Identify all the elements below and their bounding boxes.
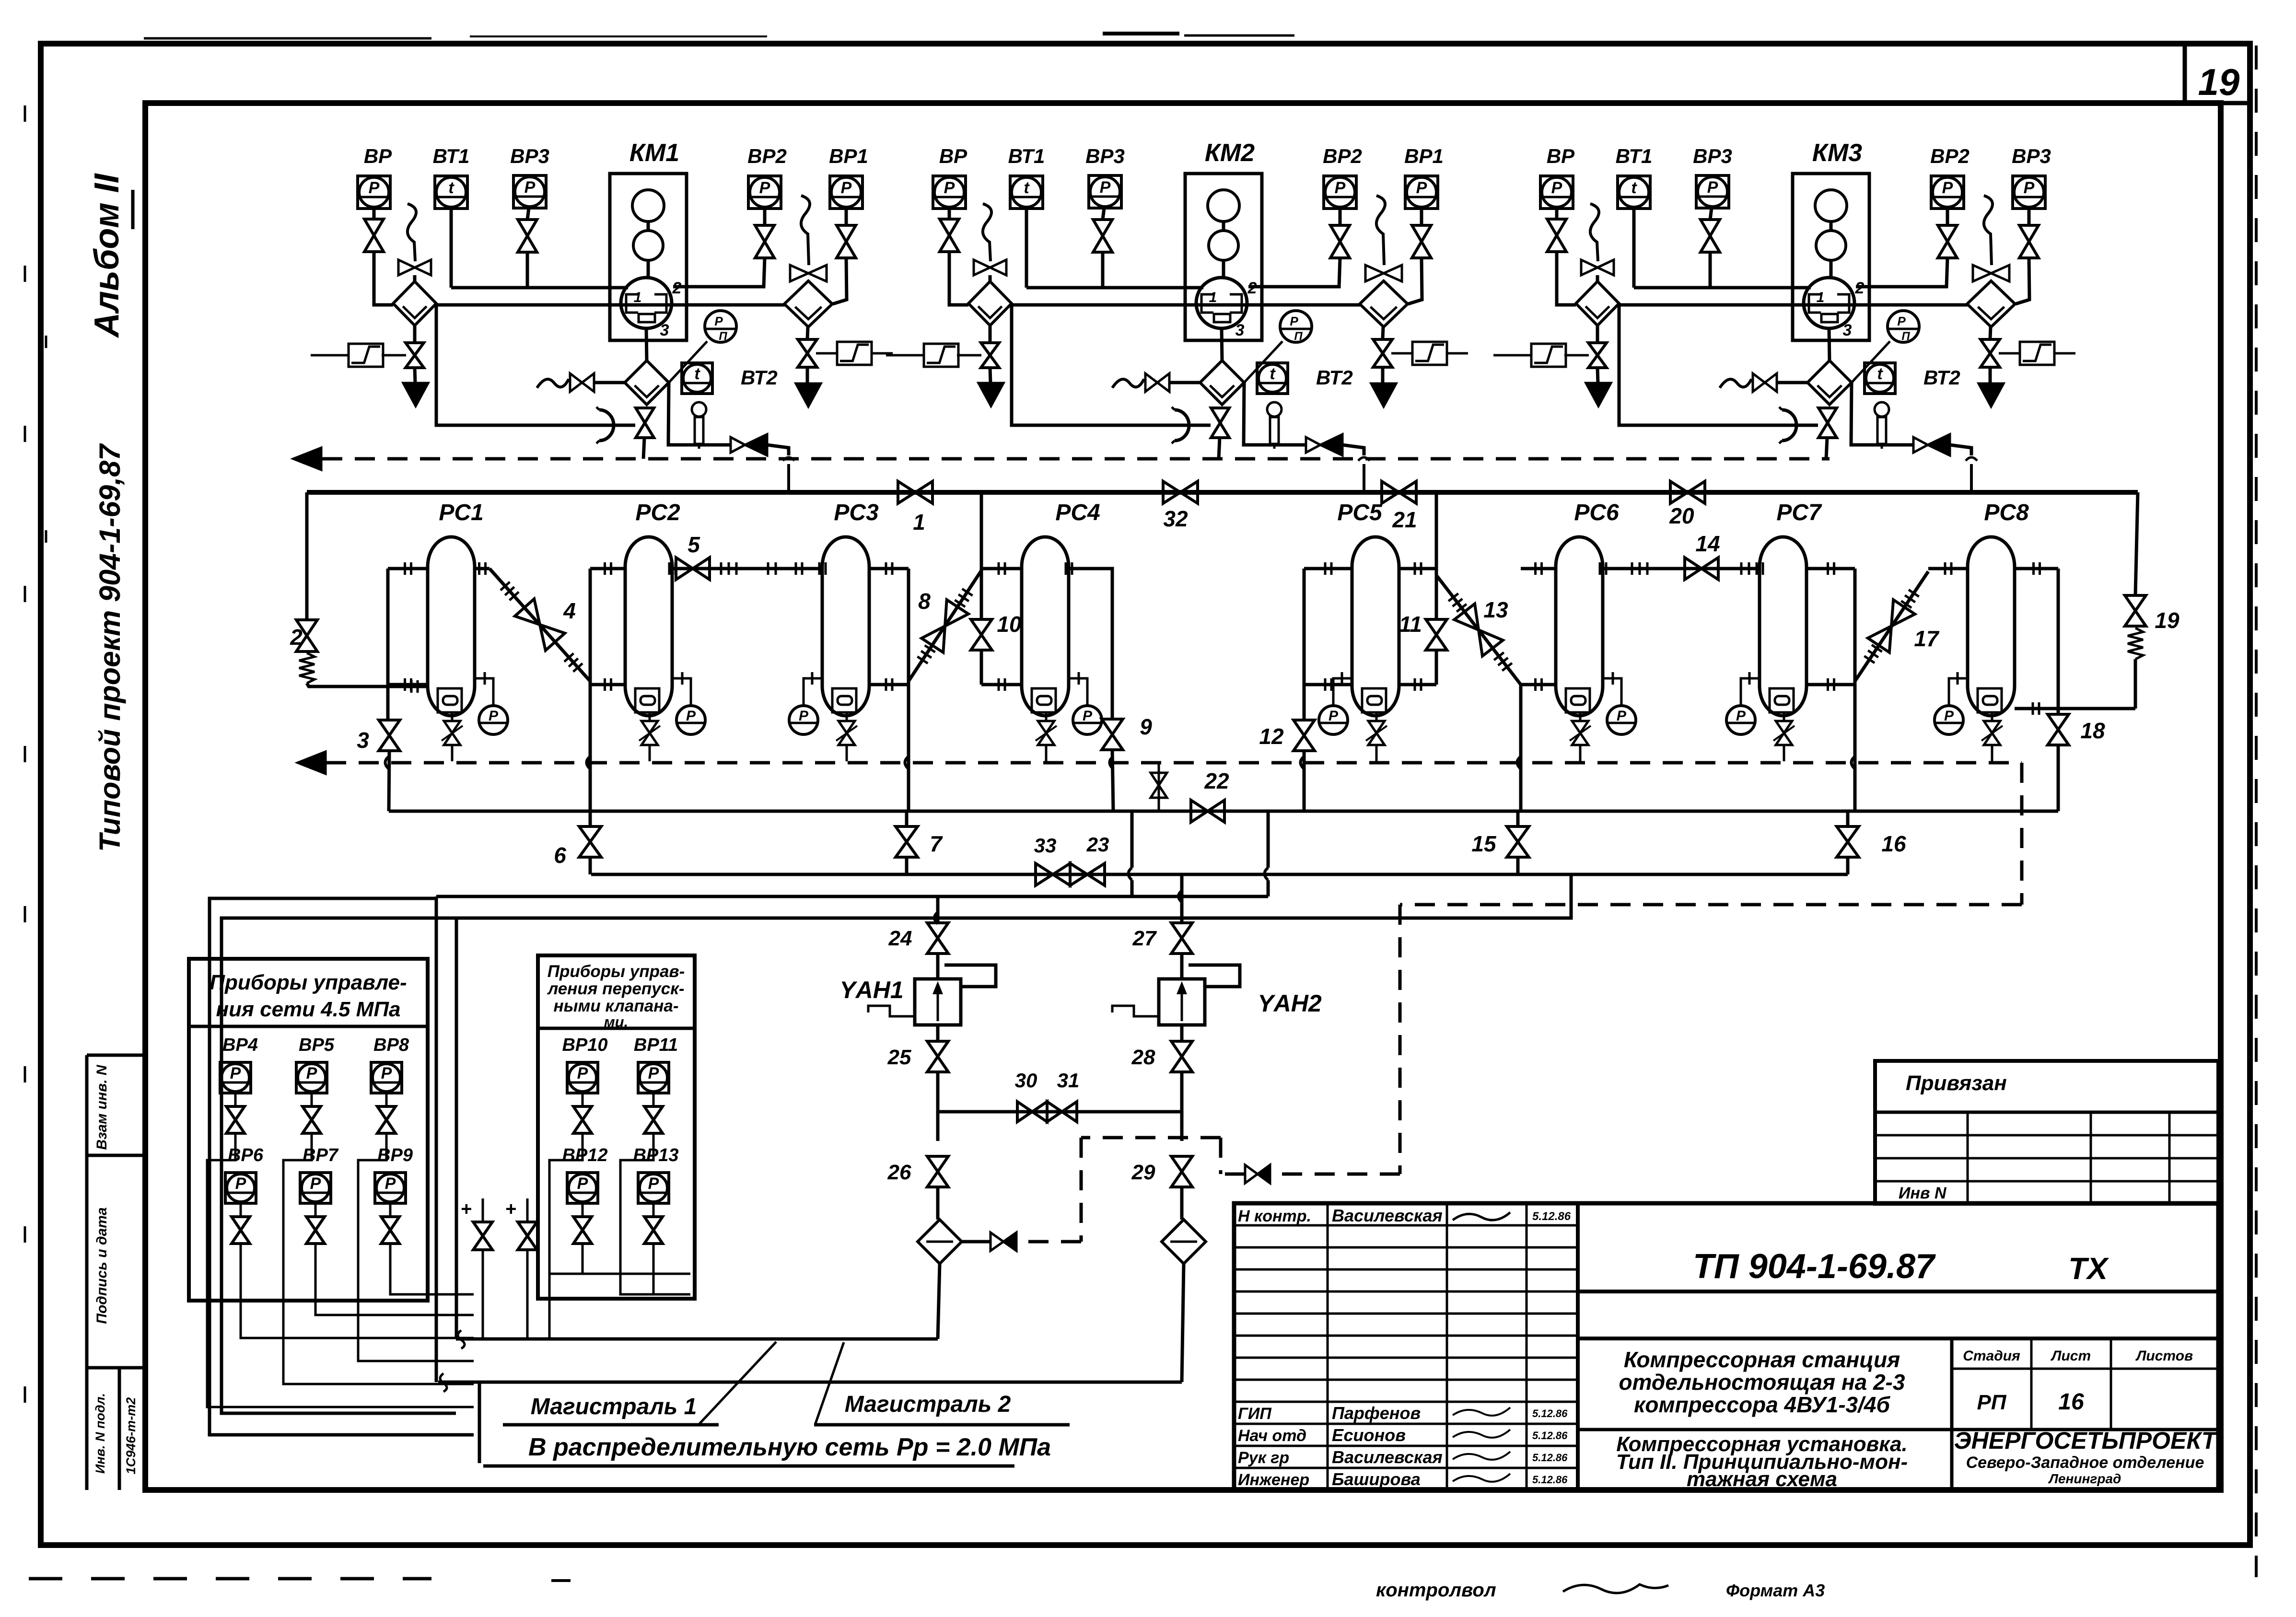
svg-text:P: P [310, 1175, 321, 1193]
svg-text:P: P [648, 1064, 659, 1082]
svg-text:33: 33 [1034, 834, 1057, 857]
svg-text:Инженер: Инженер [1238, 1471, 1309, 1489]
svg-text:ВР5: ВР5 [299, 1035, 335, 1055]
svg-text:ными клапана-: ными клапана- [554, 997, 679, 1015]
svg-text:ВР6: ВР6 [228, 1145, 264, 1165]
svg-text:контролвол: контролвол [1376, 1580, 1496, 1601]
svg-text:Василевская: Василевская [1332, 1447, 1443, 1467]
svg-text:ВР: ВР [939, 145, 967, 167]
svg-text:P: P [944, 179, 955, 197]
svg-text:26: 26 [887, 1161, 911, 1184]
svg-text:Баширова: Баширова [1332, 1469, 1421, 1489]
svg-text:РС5: РС5 [1337, 500, 1383, 525]
svg-text:13: 13 [1483, 597, 1508, 622]
svg-text:Листов: Листов [2135, 1348, 2193, 1364]
svg-text:Подпись и дата: Подпись и дата [94, 1207, 110, 1324]
svg-text:P: P [1944, 708, 1954, 724]
svg-text:t: t [448, 179, 455, 197]
svg-text:P: P [648, 1175, 659, 1193]
svg-text:P: P [1707, 178, 1718, 197]
svg-text:ВР2: ВР2 [1930, 145, 1970, 167]
svg-text:Приборы управ-: Приборы управ- [548, 962, 685, 981]
svg-text:P: P [2024, 179, 2035, 197]
svg-text:ния сети 4.5 МПа: ния сети 4.5 МПа [216, 998, 401, 1021]
svg-text:КМ3: КМ3 [1812, 139, 1862, 167]
svg-text:П: П [1901, 330, 1910, 343]
svg-text:31: 31 [1057, 1069, 1080, 1092]
svg-text:Альбом II: Альбом II [88, 173, 126, 338]
svg-text:11: 11 [1399, 612, 1422, 637]
svg-text:ВР7: ВР7 [303, 1145, 339, 1165]
svg-text:ления перепуск-: ления перепуск- [547, 979, 684, 998]
svg-text:P: P [385, 1175, 396, 1193]
svg-text:Н контр.: Н контр. [1238, 1207, 1311, 1225]
svg-text:ВР1: ВР1 [1404, 145, 1444, 167]
svg-text:РП: РП [1977, 1391, 2007, 1414]
svg-text:24: 24 [888, 927, 912, 950]
svg-text:компрессора 4ВУ1-3/4б: компрессора 4ВУ1-3/4б [1634, 1392, 1890, 1417]
svg-text:Формат А3: Формат А3 [1726, 1581, 1825, 1600]
svg-text:РС2: РС2 [635, 500, 680, 525]
svg-text:Лист: Лист [2051, 1348, 2091, 1364]
svg-text:t: t [1877, 365, 1883, 383]
svg-text:P: P [369, 179, 380, 197]
svg-text:P: P [841, 179, 852, 197]
svg-text:ТХ: ТХ [2068, 1251, 2109, 1286]
svg-text:P: P [1083, 708, 1093, 724]
svg-text:ВТ1: ВТ1 [433, 145, 470, 167]
svg-text:18: 18 [2080, 718, 2105, 743]
svg-text:П: П [1294, 330, 1303, 343]
svg-text:ВТ2: ВТ2 [1923, 366, 1960, 389]
svg-text:ВР4: ВР4 [222, 1035, 258, 1055]
svg-text:1: 1 [913, 510, 925, 535]
svg-text:ВТ1: ВТ1 [1616, 145, 1653, 167]
svg-text:30: 30 [1015, 1069, 1037, 1092]
svg-text:t: t [694, 365, 700, 383]
svg-text:P: P [1897, 314, 1906, 328]
svg-text:Ленинград: Ленинград [2048, 1471, 2121, 1486]
svg-text:P: P [686, 708, 696, 724]
svg-text:Магистраль 2: Магистраль 2 [845, 1392, 1011, 1417]
svg-text:t: t [1024, 179, 1030, 197]
svg-text:РС3: РС3 [834, 500, 879, 525]
svg-text:25: 25 [887, 1046, 911, 1069]
svg-text:t: t [1270, 365, 1276, 383]
svg-text:ВР3: ВР3 [2012, 145, 2051, 167]
svg-text:РС6: РС6 [1574, 500, 1619, 525]
svg-text:P: P [489, 708, 499, 724]
svg-text:ВР2: ВР2 [747, 145, 787, 167]
svg-text:20: 20 [1669, 503, 1694, 528]
svg-text:12: 12 [1259, 724, 1284, 749]
svg-text:P: P [235, 1175, 246, 1193]
svg-text:2: 2 [290, 625, 303, 650]
svg-text:ТП 904-1-69.87: ТП 904-1-69.87 [1693, 1247, 1936, 1286]
svg-text:P: P [1551, 179, 1562, 197]
svg-text:Инв. N подл.: Инв. N подл. [93, 1393, 107, 1474]
svg-text:P: P [230, 1064, 241, 1082]
svg-text:P: P [759, 179, 770, 197]
svg-text:ВР: ВР [364, 145, 392, 167]
svg-text:ВР11: ВР11 [634, 1035, 678, 1055]
svg-text:П: П [719, 330, 727, 343]
svg-text:ЭНЕРГОСЕТЬПРОЕКТ: ЭНЕРГОСЕТЬПРОЕКТ [1954, 1427, 2218, 1454]
svg-text:тажная схема: тажная схема [1687, 1467, 1837, 1491]
svg-text:Компрессорная станция: Компрессорная станция [1624, 1347, 1900, 1372]
svg-text:3: 3 [1235, 321, 1245, 339]
svg-text:ВТ1: ВТ1 [1008, 145, 1045, 167]
svg-text:P: P [1329, 708, 1339, 724]
svg-text:3: 3 [660, 321, 669, 339]
svg-text:1С946-т-т2: 1С946-т-т2 [124, 1397, 138, 1475]
svg-text:отдельностоящая на 2-3: отдельностоящая на 2-3 [1619, 1370, 1905, 1395]
svg-text:ВР3: ВР3 [1085, 145, 1125, 167]
svg-text:P: P [1100, 178, 1111, 197]
svg-text:+: + [505, 1198, 516, 1220]
svg-text:ВР: ВР [1547, 145, 1575, 167]
svg-text:ВР13: ВР13 [633, 1145, 678, 1165]
svg-text:YАН1: YАН1 [839, 977, 903, 1003]
svg-text:23: 23 [1086, 833, 1109, 856]
svg-text:5.12.86: 5.12.86 [1532, 1210, 1571, 1223]
svg-text:19: 19 [2198, 61, 2240, 103]
svg-text:ВР8: ВР8 [373, 1035, 409, 1055]
svg-text:Рук гр: Рук гр [1238, 1449, 1289, 1467]
svg-text:21: 21 [1392, 507, 1417, 532]
svg-text:РС1: РС1 [439, 500, 483, 525]
svg-text:1: 1 [1817, 290, 1825, 305]
svg-text:5.12.86: 5.12.86 [1532, 1408, 1568, 1419]
svg-text:P: P [577, 1064, 588, 1082]
svg-text:P: P [1290, 314, 1298, 328]
svg-text:+: + [460, 1198, 471, 1220]
svg-text:P: P [1736, 708, 1746, 724]
svg-text:ВР3: ВР3 [510, 145, 549, 167]
svg-text:8: 8 [918, 589, 931, 614]
svg-text:ВР12: ВР12 [562, 1145, 607, 1165]
svg-text:Нач отд: Нач отд [1238, 1427, 1306, 1445]
svg-text:ВР1: ВР1 [829, 145, 868, 167]
svg-text:1: 1 [634, 290, 642, 305]
svg-text:РС7: РС7 [1776, 500, 1822, 525]
svg-text:P: P [1335, 179, 1346, 197]
svg-text:16: 16 [2058, 1389, 2084, 1415]
svg-text:ГИП: ГИП [1238, 1405, 1272, 1423]
svg-text:9: 9 [1140, 714, 1152, 739]
svg-text:Василевская: Василевская [1332, 1206, 1443, 1225]
svg-text:Приборы управле-: Приборы управле- [210, 971, 407, 994]
svg-text:РС4: РС4 [1055, 500, 1100, 525]
svg-text:7: 7 [930, 831, 943, 856]
svg-text:4: 4 [563, 598, 576, 623]
svg-text:Привязан: Привязан [1906, 1071, 2007, 1095]
svg-text:5: 5 [688, 532, 700, 557]
svg-text:5.12.86: 5.12.86 [1532, 1474, 1568, 1486]
svg-text:P: P [714, 314, 723, 328]
svg-text:Стадия: Стадия [1963, 1348, 2020, 1364]
svg-text:t: t [1631, 179, 1637, 197]
svg-text:P: P [799, 708, 809, 724]
svg-text:32: 32 [1163, 506, 1188, 531]
svg-text:P: P [524, 178, 536, 197]
svg-text:17: 17 [1914, 626, 1940, 651]
svg-text:В распределительную сеть Р: В распределительную сеть Рр = 2.0 МПа [528, 1433, 1051, 1461]
svg-text:P: P [1942, 179, 1953, 197]
svg-text:ВТ2: ВТ2 [741, 366, 778, 389]
svg-text:Парфенов: Парфенов [1332, 1403, 1421, 1423]
svg-text:P: P [577, 1175, 588, 1193]
svg-text:КМ2: КМ2 [1205, 139, 1255, 167]
svg-text:ВТ2: ВТ2 [1316, 366, 1353, 389]
svg-text:29: 29 [1131, 1161, 1155, 1184]
svg-text:РС8: РС8 [1984, 500, 2029, 525]
svg-text:P: P [381, 1064, 392, 1082]
svg-text:ВР10: ВР10 [562, 1035, 607, 1055]
svg-text:5.12.86: 5.12.86 [1532, 1430, 1568, 1442]
svg-text:ВР2: ВР2 [1323, 145, 1362, 167]
svg-text:P: P [1416, 179, 1427, 197]
svg-text:ми.: ми. [604, 1013, 628, 1030]
svg-text:P: P [1617, 708, 1627, 724]
svg-text:15: 15 [1471, 831, 1497, 856]
svg-text:Магистраль 1: Магистраль 1 [531, 1394, 697, 1419]
svg-text:6: 6 [554, 843, 566, 868]
svg-text:5.12.86: 5.12.86 [1532, 1452, 1568, 1464]
svg-text:ВР3: ВР3 [1693, 145, 1732, 167]
svg-text:ВР9: ВР9 [377, 1145, 413, 1165]
svg-text:P: P [306, 1064, 317, 1082]
svg-text:Есионов: Есионов [1332, 1425, 1406, 1445]
svg-text:19: 19 [2155, 608, 2179, 633]
svg-text:1: 1 [1209, 290, 1217, 305]
svg-text:16: 16 [1881, 831, 1906, 856]
svg-text:КМ1: КМ1 [629, 139, 679, 167]
svg-text:27: 27 [1132, 927, 1157, 950]
svg-text:28: 28 [1131, 1046, 1155, 1069]
svg-text:22: 22 [1204, 768, 1229, 793]
svg-text:10: 10 [997, 612, 1022, 637]
svg-text:YАН2: YАН2 [1258, 990, 1322, 1017]
svg-text:3: 3 [357, 728, 369, 753]
svg-text:Типовой проект 904-1-69,87: Типовой проект 904-1-69,87 [93, 443, 126, 852]
svg-text:Взам инв. N: Взам инв. N [94, 1064, 110, 1150]
svg-text:14: 14 [1695, 531, 1720, 556]
svg-text:Северо-Западное отделение: Северо-Западное отделение [1966, 1454, 2204, 1472]
svg-text:3: 3 [1843, 321, 1852, 339]
svg-text:Инв N: Инв N [1899, 1184, 1947, 1202]
